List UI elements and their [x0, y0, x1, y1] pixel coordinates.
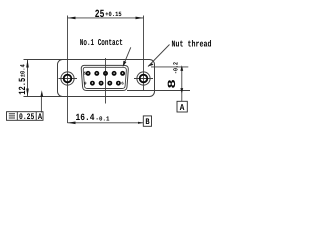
svg-text:-0.1: -0.1 — [96, 116, 110, 123]
svg-text:+0.15: +0.15 — [105, 11, 121, 18]
feature control frame cell divider 1 — [16, 112, 18, 121]
svg-text:No.1 Contact: No.1 Contact — [80, 38, 123, 48]
flange outline — [58, 60, 155, 97]
hole H2 nut thread bold ring — [140, 75, 148, 83]
svg-text:A: A — [180, 103, 185, 113]
arrowhead left of 25 dim — [68, 17, 76, 20]
arrowhead bottom of 8 dim — [180, 88, 183, 94]
centerline vertical of connector — [105, 58, 107, 104]
arrowhead left of 16.4 dim — [68, 122, 76, 125]
feature control frame leader — [40, 97, 42, 113]
feature control frame box — [7, 112, 44, 121]
pin 4 — [94, 71, 99, 76]
arrowhead top of 12.5 dim — [26, 60, 29, 68]
dim 12.5 top extension line — [24, 59, 64, 61]
arrowhead bottom of 12.5 dim — [26, 89, 29, 97]
svg-text:-0.2: -0.2 — [172, 62, 179, 74]
wire: left extension line / hole-1 centerline (from 25-dim down to 16.4-dim) — [67, 16, 69, 124]
svg-text:B: B — [145, 117, 149, 127]
pin 6 — [116, 81, 121, 86]
svg-text:8: 8 — [167, 79, 179, 89]
svg-text:A: A — [38, 112, 43, 122]
pin 1 — [120, 71, 125, 76]
arrowhead right of 25 dim — [136, 17, 144, 20]
arrowhead top of 8 dim — [180, 65, 183, 71]
datum B box — [143, 116, 151, 126]
feature control frame leader arrowhead — [40, 90, 43, 97]
dim 12.5 bottom extension line — [24, 96, 64, 98]
leader line for No.1 Contact — [123, 47, 131, 66]
dim 8 bottom extension line — [127, 90, 190, 92]
dimension line 25 +0.15 — [68, 17, 144, 19]
hole H2 outer circle — [137, 72, 150, 85]
datum A box — [177, 101, 187, 112]
pin 3 — [103, 71, 108, 76]
leader arrowhead at nut thread hole — [148, 63, 154, 66]
svg-text:12.5: 12.5 — [17, 78, 28, 95]
D-shell outer outline — [81, 65, 128, 90]
symmetry symbol — [9, 114, 15, 118]
leader line for Nut thread — [148, 45, 170, 67]
hole H1 nut thread bold ring — [64, 75, 72, 83]
svg-text:25: 25 — [95, 9, 105, 21]
dim 16.4 dimension line — [68, 122, 144, 124]
wire: right extension line / hole-2 centerline — [143, 16, 145, 91]
D-shell inner outline — [83, 67, 126, 88]
dim 12.5 dimension line — [27, 60, 29, 97]
contact pins (donuts), top row 5..1 left to right — [86, 71, 125, 86]
pin 5 — [86, 71, 91, 76]
svg-text:±0.4: ±0.4 — [20, 64, 27, 77]
hole H1 horizontal centerline — [59, 78, 78, 80]
leader arrowhead at pin 1 — [123, 61, 127, 67]
pin 2 — [112, 71, 117, 76]
arrowhead right of 16.4 dim at datum B — [138, 122, 143, 124]
svg-text:Nut thread: Nut thread — [172, 40, 212, 50]
pin 7 — [107, 81, 112, 86]
hole H2 horizontal centerline — [134, 78, 153, 80]
dim 8 top extension line — [151, 66, 188, 68]
pin 8 — [99, 81, 104, 86]
svg-text:16.4: 16.4 — [76, 112, 95, 123]
dim 8 dimension line — [181, 67, 183, 101]
svg-text:9: 9 — [84, 82, 87, 87]
feature control frame cell divider 2 — [35, 112, 37, 121]
svg-text:0.25: 0.25 — [19, 112, 34, 122]
hole H1 outer circle — [61, 72, 74, 85]
pin 9 — [90, 81, 95, 86]
svg-text:6: 6 — [121, 82, 124, 87]
